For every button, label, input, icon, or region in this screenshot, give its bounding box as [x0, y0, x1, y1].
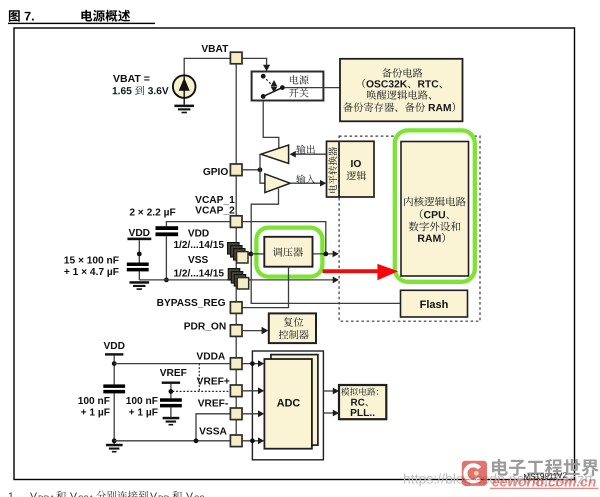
wire VCAP to capacitor: [166, 222, 230, 227]
pin pad GPIO: [230, 164, 242, 176]
svg-text:MS19911V2: MS19911V2: [523, 471, 567, 482]
kernel logic box: [401, 142, 469, 277]
kernel green highlight ring: [395, 130, 475, 281]
node VDD junction: [137, 252, 142, 257]
level shifter label: [328, 147, 337, 193]
watermark eeworld url: [490, 475, 599, 490]
svg-text:V: V: [150, 491, 157, 497]
node C1 ground junction: [164, 278, 169, 283]
ground symbol VREF: [163, 417, 180, 420]
wire VCAP to regulator output: [242, 222, 326, 254]
capacitor C1 2x2.2uF: [156, 226, 179, 230]
capacitor C2 bank: [127, 263, 149, 267]
wire switch to backup box: [284, 87, 340, 89]
title text: [81, 10, 130, 22]
flash box: [401, 290, 468, 317]
node VREF junction: [169, 389, 174, 394]
analog circuits line3: [351, 409, 375, 416]
node VREF- ground junction: [194, 438, 199, 443]
wire VREF- to analog ground: [196, 414, 230, 441]
annotation red arrow: [323, 264, 399, 280]
svg-text:2 × 2.2 µF: 2 × 2.2 µF: [129, 207, 175, 218]
pin pad VREF+: [230, 385, 242, 397]
wire VDD to cap: [138, 240, 140, 262]
power switch arrows: [271, 80, 278, 86]
regulator label: [273, 247, 303, 256]
wire C2 to ground rail: [138, 271, 140, 280]
analog circuits line2: [351, 399, 368, 407]
wire ADC to analog circuits upper: [323, 390, 333, 392]
svg-text:+ 1 × 4.7 µF: + 1 × 4.7 µF: [64, 267, 119, 278]
wire pin column: [235, 58, 237, 441]
svg-text:V: V: [30, 491, 37, 497]
watermark eeworld logo: [462, 461, 487, 486]
svg-text:VREF-: VREF-: [198, 398, 229, 409]
wire ADC to analog circuits lower: [323, 412, 333, 414]
wire VREF+ into ADC: [242, 390, 258, 392]
title underline: [8, 23, 155, 24]
regulator green highlight ring: [256, 228, 322, 277]
analog circuits line1: [341, 388, 378, 396]
ADC front box: [264, 359, 312, 449]
ground below battery: [183, 98, 185, 105]
wire PDR_ON to reset controller: [242, 330, 262, 332]
capacitor C4: [160, 398, 182, 402]
power switch arm: [263, 88, 282, 97]
node analog ground junction: [112, 438, 117, 443]
wire input to level shifter: [290, 182, 320, 184]
watermark url text: [404, 473, 593, 486]
wire VREF- into ADC: [242, 413, 258, 415]
dashed VDDA to VREF link: [198, 364, 200, 392]
svg-text:VCAP_2: VCAP_2: [195, 205, 235, 216]
svg-text:VREF+: VREF+: [197, 377, 230, 388]
wire VDDA into ADC: [242, 363, 258, 365]
pin pad VSSA: [230, 435, 242, 447]
svg-text:VDD: VDD: [103, 341, 125, 352]
ground symbol main: [130, 281, 150, 284]
ground symbol analog: [113, 441, 115, 444]
svg-text:VDD: VDD: [129, 228, 151, 239]
ground rail to VSS: [139, 279, 333, 281]
level shifter box: [327, 141, 340, 197]
svg-text:VDDA: VDDA: [196, 352, 226, 363]
wire VDD rail to flash: [251, 189, 400, 304]
pin pad VBAT: [230, 52, 242, 64]
reset controller label: [284, 317, 304, 326]
svg-text:PDR_ON: PDR_ON: [184, 322, 226, 333]
ADC domain box: [252, 351, 323, 460]
wire VDD analog down: [113, 356, 115, 385]
svg-text:ADC: ADC: [277, 398, 301, 410]
wire C3 to analog ground: [113, 393, 115, 440]
wire VBAT source to pad: [184, 58, 230, 75]
wire VDDA row: [114, 363, 230, 365]
wire C1 to ground rail: [165, 236, 167, 280]
wire VDD stack to rail: [246, 253, 251, 255]
svg-text:VSS: VSS: [188, 255, 208, 266]
svg-text:15 × 100 nF: 15 × 100 nF: [64, 255, 119, 266]
wire VBAT pad to power switch: [242, 58, 267, 65]
pin pad BYPASS_REG: [230, 302, 242, 314]
kernel line2: [420, 209, 449, 219]
title figure label: [9, 10, 34, 21]
wire C4 to ground: [170, 407, 172, 416]
wire regulator bypass: [242, 267, 289, 308]
pin stack VSS: [228, 269, 239, 280]
kernel line3: [409, 222, 460, 232]
svg-text:V: V: [186, 491, 193, 497]
svg-text:100 nF: 100 nF: [126, 396, 158, 407]
backup box line4: [343, 102, 455, 112]
svg-text:GPIO: GPIO: [203, 167, 229, 178]
svg-text:VREF: VREF: [160, 368, 187, 379]
label output: [296, 145, 315, 154]
backup box line2: [362, 79, 441, 89]
capacitor C3: [103, 384, 125, 388]
regulator U2 box: [264, 237, 312, 267]
analog circuits box: [339, 385, 386, 419]
pin stack VDD: [228, 243, 239, 254]
wire VSSA row: [114, 440, 230, 442]
power switch dashed throw: [263, 76, 272, 85]
power switch U1 box: [252, 72, 324, 101]
reset controller box: [269, 313, 316, 343]
svg-text:VSSA: VSSA: [199, 427, 227, 438]
kernel line1: [404, 197, 466, 207]
backup box line1: [382, 68, 423, 77]
ADC back box: [271, 355, 318, 446]
supply bar VDD analog: [105, 353, 123, 355]
backup circuitry box: [340, 59, 463, 122]
wire VSSA into ADC: [242, 440, 258, 442]
svg-text:BYPASS_REG: BYPASS_REG: [157, 298, 226, 309]
svg-text:IO: IO: [351, 159, 362, 170]
supply bar VREF: [162, 382, 180, 384]
output buffer A1: [261, 145, 289, 163]
battery source V1: [173, 75, 196, 98]
pin pad VCAP: [230, 216, 242, 228]
watermark eeworld cn text: [492, 459, 599, 476]
pin pad VDDA: [230, 358, 242, 370]
svg-text:1/2/...14/15: 1/2/...14/15: [173, 268, 224, 279]
svg-text:Flash: Flash: [420, 299, 449, 311]
svg-text:+ 1 µF: + 1 µF: [129, 407, 158, 418]
svg-text:100 nF: 100 nF: [78, 396, 110, 407]
node VDDA junction: [112, 361, 117, 366]
wire switch to output buffer supply: [263, 101, 279, 149]
IO logic box: [339, 141, 374, 197]
input buffer A2: [265, 174, 290, 193]
svg-text:VBAT =: VBAT =: [113, 73, 150, 85]
svg-text:1/2/...14/15: 1/2/...14/15: [173, 240, 224, 251]
node GPIO junction: [258, 167, 263, 172]
kernel line4: [418, 233, 445, 243]
wire VREF down: [170, 384, 172, 398]
wire VDD to regulator: [251, 253, 264, 255]
backup box line3: [367, 90, 431, 100]
power switch label: [290, 75, 309, 84]
svg-text:VDD: VDD: [188, 228, 209, 239]
label input: [296, 174, 315, 183]
svg-text:VBAT: VBAT: [201, 44, 229, 55]
wire GPIO pad to buffers: [242, 169, 260, 171]
pin pad VREF-: [230, 408, 242, 420]
pin pad PDR_ON: [230, 325, 242, 337]
svg-text:+ 1 µF: + 1 µF: [81, 407, 110, 418]
dashed core domain box: [339, 136, 480, 321]
power switch contacts: [261, 74, 266, 79]
svg-text:V: V: [70, 491, 77, 497]
node VDD rail junction: [249, 252, 254, 257]
svg-text:1.: 1.: [8, 491, 17, 497]
node regulator output junction: [323, 252, 328, 257]
supply bar VDD: [127, 238, 151, 241]
watermark ms code: [523, 471, 567, 482]
wire output from level shifter: [296, 153, 327, 155]
wire junction to input buffer: [260, 170, 265, 183]
wire junction up to output buffer: [259, 154, 261, 170]
wire regulator output: [313, 253, 333, 255]
